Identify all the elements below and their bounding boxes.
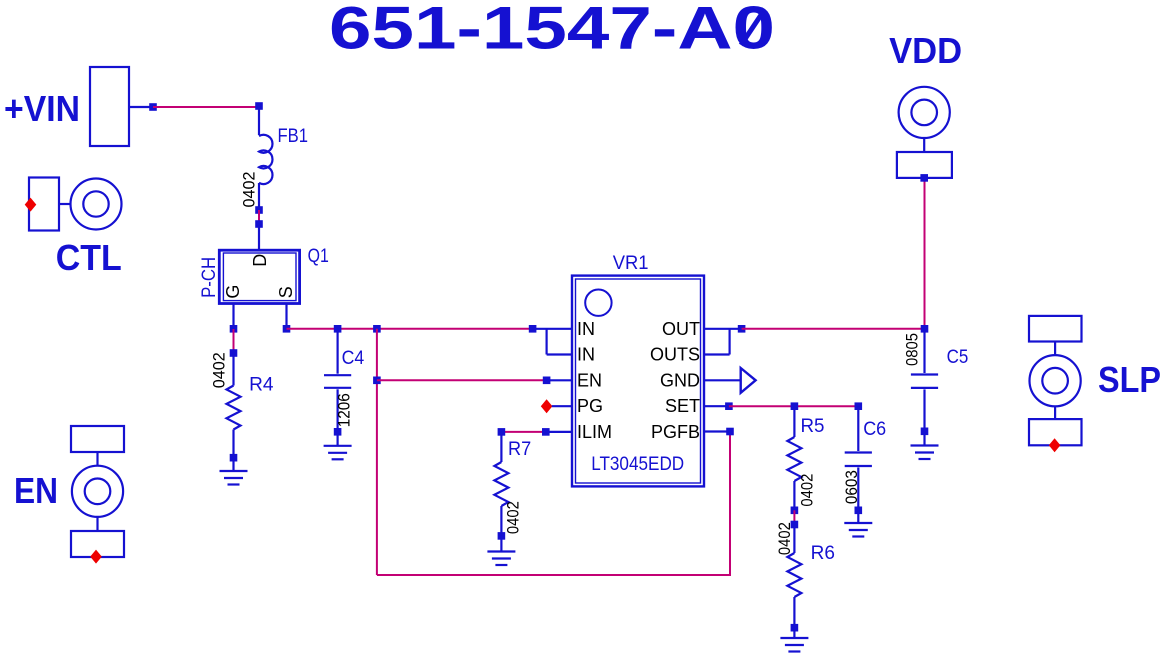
svg-text:R4: R4	[249, 375, 274, 396]
junction	[283, 325, 291, 333]
junction C6 top	[855, 402, 863, 410]
connector VDD label	[889, 30, 962, 71]
junction branch	[373, 325, 381, 333]
svg-text:ILIM: ILIM	[577, 422, 612, 442]
wire gate net	[233, 329, 235, 353]
label R6	[811, 543, 835, 564]
junction R5 top	[791, 402, 799, 410]
connector EN label	[14, 470, 58, 511]
pin OUTS	[650, 345, 700, 365]
wire EN stub	[547, 379, 572, 381]
junction	[791, 521, 799, 529]
pin G label	[223, 285, 243, 299]
svg-text:0402: 0402	[210, 352, 229, 388]
ground C6	[844, 510, 872, 536]
junction	[255, 102, 263, 110]
svg-text:651-1547-A0: 651-1547-A0	[329, 0, 775, 62]
junction R7 top	[498, 428, 506, 436]
label C4	[342, 348, 365, 369]
no-connect SLP red dot	[1049, 438, 1061, 452]
junction	[255, 220, 263, 228]
connector CTL	[29, 178, 122, 231]
svg-text:R7: R7	[508, 439, 531, 460]
wire vertical branch	[376, 329, 378, 575]
pin PG	[577, 396, 603, 416]
label 0603	[842, 470, 861, 504]
wire Q1 source stub	[285, 304, 287, 329]
transistor Q1	[219, 250, 299, 303]
junction	[791, 507, 799, 515]
title 651-1547-A0	[329, 0, 775, 62]
svg-text:C6: C6	[863, 419, 886, 440]
svg-text:FB1: FB1	[278, 126, 309, 147]
pin S label	[276, 286, 296, 298]
junction	[230, 349, 238, 357]
resistor R7	[494, 432, 508, 536]
ground C4	[324, 432, 352, 460]
junction	[921, 428, 929, 436]
wire Q1 gate stub	[232, 304, 234, 330]
label LT3045EDD	[591, 454, 684, 475]
wire stub to Q1 drain	[258, 224, 260, 250]
svg-text:0402: 0402	[775, 522, 794, 555]
svg-text:VDD: VDD	[889, 30, 962, 71]
resistor R5	[787, 406, 801, 510]
connector +VIN body	[90, 67, 129, 146]
pin GND	[660, 370, 700, 390]
connector +VIN label	[4, 88, 80, 129]
junction	[230, 454, 238, 462]
resistor R4	[227, 353, 241, 458]
svg-text:R5: R5	[801, 416, 825, 437]
ground R4	[220, 458, 248, 485]
label Q1	[308, 246, 329, 267]
label R4	[249, 375, 274, 396]
wire +VIN stub	[129, 106, 153, 108]
junction	[230, 325, 238, 333]
junction	[334, 428, 342, 436]
label VR1	[613, 253, 649, 274]
pin PGFB	[651, 422, 700, 442]
svg-text:P-CH: P-CH	[199, 257, 220, 298]
wire R5-R6	[793, 510, 795, 524]
pin IN 1	[577, 319, 595, 339]
svg-text:R6: R6	[811, 543, 835, 564]
svg-text:G: G	[223, 285, 243, 299]
wire SET stub	[704, 405, 729, 407]
svg-text:0603: 0603	[842, 470, 861, 504]
wire PGFB stub	[704, 430, 730, 432]
svg-text:VR1: VR1	[613, 253, 649, 274]
svg-text:SLP: SLP	[1098, 359, 1161, 400]
IC VR1 LT3045EDD	[572, 276, 704, 487]
connector VDD jack	[897, 87, 952, 178]
wire bottom PGFB net	[377, 432, 730, 576]
svg-text:LT3045EDD: LT3045EDD	[591, 454, 684, 475]
wire GND stub	[704, 379, 741, 381]
svg-text:PG: PG	[577, 396, 603, 416]
svg-text:PGFB: PGFB	[651, 422, 700, 442]
label P-CH	[199, 257, 220, 298]
connector EN	[71, 426, 124, 557]
pin IN 2	[577, 345, 595, 365]
svg-text:GND: GND	[660, 370, 700, 390]
svg-text:C4: C4	[342, 348, 365, 369]
pin EN	[577, 370, 602, 390]
wire ILIM stub	[546, 431, 572, 433]
svg-text:D: D	[250, 254, 270, 267]
junction IN	[529, 325, 537, 333]
label C5	[947, 347, 969, 368]
wire OUT stubs bracket	[704, 329, 742, 355]
wire FB1 to Q1	[258, 210, 260, 224]
svg-text:EN: EN	[14, 470, 58, 511]
capacitor C6	[845, 406, 872, 510]
svg-text:IN: IN	[577, 345, 595, 365]
label 0805	[902, 333, 921, 366]
junction ILIM	[542, 428, 550, 436]
pin ILIM	[577, 422, 612, 442]
junction	[149, 103, 157, 111]
svg-text:0402: 0402	[797, 474, 816, 507]
wire EN net	[377, 379, 547, 381]
pin D label	[250, 254, 270, 267]
junction	[855, 507, 863, 515]
svg-text:OUT: OUT	[662, 319, 700, 339]
label R7	[508, 439, 531, 460]
junction	[373, 377, 381, 385]
label R5	[801, 416, 825, 437]
ground R7	[487, 536, 515, 565]
label 0402 FB1	[240, 172, 259, 208]
wire VDD net	[924, 178, 926, 329]
wire SET net	[729, 405, 858, 407]
connector SLP label	[1098, 359, 1161, 400]
capacitor C4	[324, 329, 351, 432]
svg-text:+VIN: +VIN	[4, 88, 80, 129]
svg-text:S: S	[276, 286, 296, 298]
junction	[791, 624, 799, 632]
svg-text:0402: 0402	[240, 172, 259, 208]
inductor FB1	[259, 106, 272, 210]
junction PGFB	[726, 428, 734, 436]
wire ILIM net	[501, 431, 545, 433]
connector CTL label	[56, 237, 122, 278]
svg-text:0402: 0402	[504, 501, 523, 534]
svg-text:C5: C5	[947, 347, 969, 368]
label 0402 R4	[210, 352, 229, 388]
junction	[334, 325, 342, 333]
ground C5	[911, 431, 939, 459]
wire PG stub	[552, 405, 572, 407]
resistor R6	[787, 525, 801, 628]
connector SLP	[1029, 316, 1082, 445]
label C6	[863, 419, 886, 440]
label 0402 R6	[775, 522, 794, 555]
junction EN	[543, 377, 551, 385]
junction OUT	[738, 325, 746, 333]
ground R6	[780, 628, 808, 652]
no-connect CTL red dot	[25, 198, 37, 212]
junction C5 top	[921, 325, 929, 333]
svg-text:Q1: Q1	[308, 246, 329, 267]
ground arrow GND	[741, 368, 756, 393]
label 0402 R7	[504, 501, 523, 534]
label FB1	[278, 126, 309, 147]
svg-text:1206: 1206	[335, 393, 354, 427]
pin OUT	[662, 319, 700, 339]
junction	[498, 532, 506, 540]
svg-text:EN: EN	[577, 370, 602, 390]
wire main IN net	[287, 328, 533, 330]
label 1206	[335, 393, 354, 427]
pin SET	[665, 396, 700, 416]
svg-text:SET: SET	[665, 396, 700, 416]
wire IN stubs bracket	[533, 329, 572, 355]
wire OUT net	[742, 328, 925, 330]
svg-text:CTL: CTL	[56, 237, 122, 278]
capacitor C5	[911, 329, 938, 432]
svg-text:OUTS: OUTS	[650, 345, 700, 365]
junction	[255, 206, 263, 214]
svg-text:0805: 0805	[902, 333, 921, 366]
junction SET	[725, 402, 733, 410]
no-connect EN red dot	[90, 550, 102, 564]
wire +VIN to FB1	[153, 106, 259, 108]
no-connect PG red dot	[541, 399, 553, 413]
svg-text:IN: IN	[577, 319, 595, 339]
junction VDD	[920, 174, 928, 182]
label 0402 R5	[797, 474, 816, 507]
